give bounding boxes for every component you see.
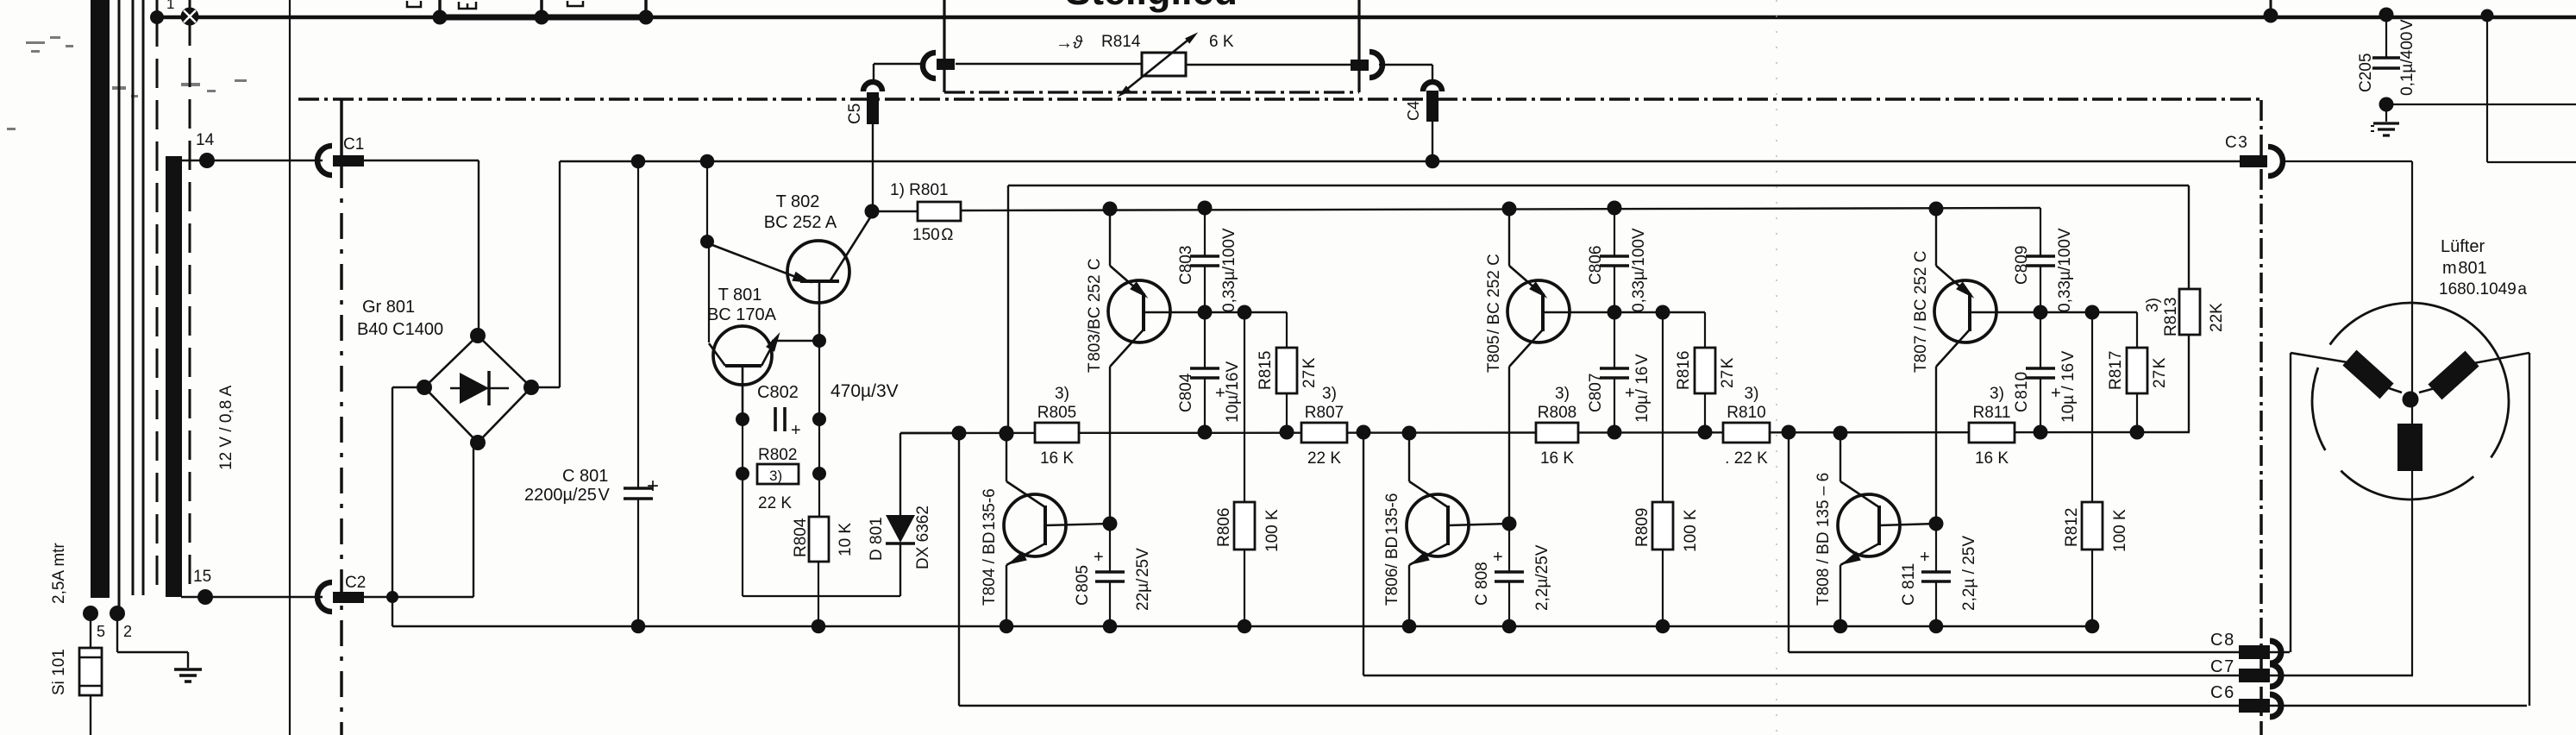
svg-text:0,33µ/100V: 0,33µ/100V	[1220, 228, 1238, 312]
wire C&#8202;805 ground	[1109, 581, 1111, 626]
capacitor C 811	[1935, 524, 1937, 572]
svg-text:0,33µ/100V: 0,33µ/100V	[2056, 228, 2074, 312]
transformer secondary winding bar 14-15	[166, 156, 182, 597]
svg-text:6 K: 6 K	[1209, 33, 1234, 51]
node R804 ground	[812, 619, 826, 634]
node C205 top	[2379, 8, 2394, 22]
fan winding bottom	[2397, 424, 2422, 471]
wire +12V rail	[560, 160, 2240, 162]
node C801 branch	[631, 154, 646, 169]
node bus a	[433, 10, 448, 25]
bridge diamond	[424, 336, 531, 443]
node T804 base	[1103, 517, 1118, 531]
svg-text:22µ/ 25V: 22µ/ 25V	[1134, 548, 1152, 611]
fan center node	[2403, 392, 2419, 408]
diode in bridge	[450, 387, 509, 389]
svg-text:C 801: C 801	[562, 467, 608, 486]
wire base ext	[1205, 311, 1244, 313]
wire C803 to base	[1204, 266, 1206, 312]
wire ground rail	[392, 625, 2093, 628]
resistor R813	[2179, 289, 2200, 335]
cut label a	[407, 1, 421, 7]
wire node2 to ground	[116, 613, 118, 652]
node C 811 ground	[1929, 619, 1944, 634]
resistor R804	[809, 517, 829, 562]
resistor R810	[1723, 423, 1770, 443]
svg-text:R807: R807	[1305, 404, 1344, 422]
wire T803 base	[1144, 311, 1205, 313]
svg-text:10µ / 16 V: 10µ / 16 V	[2059, 350, 2078, 423]
wire R812 riser	[2091, 312, 2093, 502]
svg-text:15: 15	[193, 568, 211, 586]
transistor T807	[1934, 280, 1996, 342]
node T806 base	[1502, 517, 1517, 531]
node loop1	[952, 426, 967, 441]
svg-text:0,1µ/400 V: 0,1µ/400 V	[2398, 19, 2416, 96]
wire stub above bus b	[540, 0, 543, 17]
node T803 emitter rail	[1103, 202, 1118, 217]
wire C 808 ground	[1508, 581, 1510, 626]
wire T801 collector riser	[708, 242, 710, 342]
svg-text:→ϑ: →ϑ	[1056, 34, 1083, 53]
svg-text:m 801: m 801	[2442, 259, 2487, 278]
connector C6	[2239, 699, 2270, 713]
node base/R809	[1656, 305, 1670, 320]
capacitor C807	[1614, 312, 1615, 368]
wire base ext	[2040, 311, 2092, 313]
connector C5	[863, 82, 882, 91]
node C803 top	[1198, 201, 1213, 216]
fan left lead	[2291, 353, 2353, 363]
svg-text:R806: R806	[1215, 508, 1233, 547]
svg-text:100 K: 100 K	[1682, 509, 1700, 552]
wire loop1 down	[958, 433, 960, 706]
wire bridge left to ground rail	[392, 386, 424, 388]
svg-text:C 805: C 805	[1074, 565, 1092, 606]
paper crease	[1776, 0, 1777, 735]
wire R801 to stages	[961, 208, 2040, 210]
svg-text:C 810: C 810	[2013, 372, 2031, 412]
node R802 left	[736, 467, 749, 481]
svg-text:T804 / BD 135-6: T804 / BD 135-6	[981, 488, 999, 606]
wire R815 to rail	[1286, 393, 1288, 432]
svg-text:10µ/16V: 10µ/16V	[1224, 361, 1242, 423]
connector C7	[2239, 669, 2270, 682]
node T802 base	[812, 334, 826, 348]
node C806 top	[1608, 201, 1622, 216]
wire loop3 down	[1788, 432, 1789, 652]
wire 14 to C1	[182, 160, 323, 161]
node base/C803	[1198, 305, 1213, 320]
transformer winding line b	[142, 0, 145, 595]
transformer primary winding bar	[91, 0, 110, 598]
wire C5 to node R801	[872, 120, 874, 211]
connector plug R814 right	[1351, 60, 1369, 71]
node base/C809	[2034, 305, 2048, 320]
transformer core dashed line left	[156, 17, 159, 595]
svg-text:2,5A mtr: 2,5A mtr	[50, 543, 68, 604]
wire R802 left down	[742, 474, 743, 596]
svg-text:Gr 801: Gr 801	[362, 298, 415, 317]
node T805 emitter rail	[1502, 202, 1517, 217]
node R812 ground	[2085, 619, 2100, 634]
resistor R811	[1969, 423, 2015, 443]
svg-text:22 K: 22 K	[758, 494, 792, 512]
node R809 ground	[1656, 619, 1670, 634]
node 15	[197, 589, 213, 605]
capacitor C&#8202;805	[1109, 524, 1111, 572]
svg-text:R815: R815	[1257, 351, 1275, 390]
wire base rail	[900, 432, 2190, 433]
transformer winding line node2	[118, 0, 121, 608]
shield boundary horizontal	[298, 97, 2261, 101]
transistor T806	[1407, 494, 1469, 556]
wire R813 to rail	[2188, 335, 2190, 432]
svg-text:C4: C4	[1405, 101, 1422, 121]
transistor T808	[1838, 494, 1900, 556]
wire feedback right drop to R813	[2188, 185, 2190, 289]
wire C7 rail	[1363, 675, 2413, 676]
connector C1	[317, 146, 332, 175]
wire C3 to fan center	[2280, 160, 2412, 162]
cut label b	[459, 2, 476, 9]
node C&#8202;805 ground	[1103, 619, 1118, 634]
svg-text:10 K: 10 K	[837, 523, 855, 556]
screen junction symbol	[181, 8, 199, 26]
node base/C806	[1608, 305, 1622, 320]
svg-text:150 Ω: 150 Ω	[912, 226, 954, 244]
svg-text:10µ / 16 V: 10µ / 16 V	[1633, 354, 1652, 423]
svg-text:D 801: D 801	[868, 517, 886, 561]
svg-text:C 811: C 811	[1900, 563, 1918, 606]
node C&#8202;810 bottom	[2034, 425, 2048, 440]
transformer core dashed line right	[189, 16, 191, 595]
capacitor C804	[1204, 312, 1206, 368]
node C802 right	[812, 412, 826, 426]
svg-text:T808 / BD 135 – 6: T808 / BD 135 – 6	[1814, 473, 1833, 606]
wire R809 riser	[1662, 312, 1664, 502]
svg-text:3): 3)	[1055, 385, 1069, 403]
wire feedback left drop	[1007, 185, 1009, 434]
svg-text:+: +	[1920, 548, 1930, 567]
svg-text:BC 252 A: BC 252 A	[764, 213, 837, 232]
node 5	[83, 606, 98, 621]
node base/R806	[1238, 305, 1252, 320]
wire stub above bus c	[644, 0, 648, 17]
svg-text:R813: R813	[2162, 298, 2180, 336]
wire R809 to ground	[1662, 550, 1664, 626]
svg-text:+: +	[1094, 548, 1104, 567]
node T807 emitter rail	[1929, 202, 1944, 217]
node C4-rail	[1426, 154, 1440, 169]
capacitor C801	[624, 487, 653, 490]
wire R817 to rail	[2136, 393, 2138, 432]
svg-text:T806/ BD 135-6: T806/ BD 135-6	[1383, 493, 1401, 606]
svg-text:3): 3)	[1745, 385, 1759, 403]
svg-text:C804: C804	[1177, 373, 1195, 412]
wire R806 riser	[1244, 312, 1245, 502]
shield boundary right vertical	[2259, 100, 2263, 735]
transistor T802	[787, 241, 849, 303]
transistor T805	[1507, 280, 1570, 342]
resistor R817	[2127, 348, 2147, 393]
wire C8 rail	[1789, 651, 2290, 653]
svg-text:C802: C802	[757, 383, 799, 402]
svg-text:C1: C1	[343, 135, 364, 154]
node bridge left	[417, 380, 432, 395]
svg-text:R816: R816	[1675, 351, 1693, 390]
wire C 811 ground	[1935, 581, 1937, 626]
Stellglied box right edge	[1357, 0, 1360, 92]
node R806 ground	[1238, 619, 1252, 634]
svg-text:C 8: C 8	[2210, 631, 2234, 650]
wire R806 to ground	[1244, 550, 1245, 626]
wire stub above bus a	[438, 0, 442, 17]
wire C809 to base	[2040, 266, 2041, 312]
svg-text:T805 / BC 252 C: T805 / BC 252 C	[1485, 254, 1503, 373]
resistor R801	[918, 202, 961, 221]
node T806 emitter ground	[1402, 619, 1417, 634]
wire C205 node right	[2386, 104, 2576, 105]
svg-text:Si 101: Si 101	[50, 649, 68, 695]
node T804 collector	[1000, 426, 1014, 441]
wire 27K jog	[2092, 311, 2137, 313]
svg-text:27 K: 27 K	[1719, 357, 1737, 388]
node R802 right	[812, 467, 826, 481]
wire R804 to ground	[818, 562, 819, 626]
wire top bus	[152, 16, 2576, 20]
svg-text:2,2µ / 25V: 2,2µ / 25V	[1960, 536, 1978, 611]
node C 808 ground	[1502, 619, 1517, 634]
node T801/T802 junction	[700, 235, 714, 248]
node C5/R801	[865, 204, 880, 219]
ground symbol C205	[2385, 104, 2387, 122]
svg-text:470µ/3V: 470µ/3V	[830, 381, 899, 401]
ground symbol (transformer)	[174, 668, 202, 671]
transistor T801	[713, 326, 772, 385]
svg-text:16 K: 16 K	[1540, 449, 1574, 468]
svg-text:2,2µ/25V: 2,2µ/25V	[1533, 544, 1551, 611]
scan noise	[7, 36, 247, 130]
wire R814 to right plug	[1186, 64, 1351, 66]
svg-text:R802: R802	[758, 446, 797, 464]
potentiometer R814	[1142, 53, 1186, 76]
connector C3	[2240, 155, 2267, 167]
node T808 collector	[1833, 426, 1848, 441]
node C804 bottom	[1198, 425, 1213, 440]
svg-text:C 3: C 3	[2225, 134, 2247, 152]
capacitor C803	[1204, 208, 1206, 256]
wire C6 rail	[959, 705, 2527, 707]
wire stub above	[2270, 0, 2272, 16]
fan right lead	[2469, 353, 2529, 364]
svg-text:R817: R817	[2107, 351, 2125, 390]
wire C801 to ground	[637, 499, 639, 626]
resistor R805	[1035, 423, 1079, 443]
svg-text:R811: R811	[1972, 404, 2010, 422]
node C807 bottom	[1608, 425, 1622, 440]
svg-text:16 K: 16 K	[1040, 449, 1074, 468]
node bus-left	[150, 10, 164, 24]
wire stub above screen junction	[189, 0, 191, 10]
wire T805 base	[1543, 311, 1614, 313]
svg-text:3): 3)	[2144, 298, 2162, 312]
node C801 ground	[631, 619, 646, 634]
svg-text:R810: R810	[1727, 404, 1765, 422]
R814 adjust arrow	[1126, 40, 1188, 90]
svg-text:Lüfter: Lüfter	[2441, 237, 2485, 256]
svg-text:3): 3)	[1555, 385, 1570, 403]
node bridge bottom	[470, 435, 486, 450]
wire 27K jog	[1663, 311, 1705, 313]
svg-text:C 7: C 7	[2210, 657, 2234, 676]
svg-text:R805: R805	[1037, 404, 1076, 422]
svg-text:16 K: 16 K	[1975, 449, 2009, 468]
wire feedback rail	[1008, 185, 2189, 186]
node T804 emitter ground	[1000, 619, 1014, 634]
wire rail to C801	[637, 161, 639, 488]
svg-text:100 K: 100 K	[1263, 509, 1282, 552]
node bus c	[639, 10, 654, 25]
svg-text:27 K: 27 K	[1301, 357, 1319, 388]
wire base ext	[1614, 311, 1663, 313]
svg-text:C807: C807	[1587, 374, 1605, 412]
resistor R806	[1234, 502, 1255, 550]
wire T807 base	[1970, 311, 2040, 313]
wire C&#8202;810 to rail	[2040, 378, 2041, 433]
node T808 base	[1929, 517, 1944, 531]
wire node to R801	[872, 210, 918, 212]
svg-text:T 803/BC 252 C: T 803/BC 252 C	[1086, 258, 1104, 373]
svg-text:2200µ/25 V: 2200µ/25 V	[524, 486, 610, 505]
node 14	[199, 153, 215, 168]
node C802 left	[736, 412, 749, 426]
node R816 bottom	[1698, 425, 1713, 440]
svg-text:T807 / BC 252 C: T807 / BC 252 C	[1912, 250, 1930, 373]
wire rail down to T-group	[706, 161, 708, 242]
capacitor C802	[774, 407, 777, 431]
svg-text:22K: 22K	[2208, 303, 2226, 332]
svg-text:5: 5	[97, 623, 105, 640]
capacitor C 808	[1508, 524, 1510, 572]
svg-text:C803: C803	[1177, 246, 1195, 285]
svg-text:C 808: C 808	[1473, 562, 1491, 606]
resistor R809	[1652, 502, 1673, 550]
node R817 bottom	[2130, 425, 2145, 440]
svg-text:+: +	[1493, 548, 1503, 567]
wire C5 to R814 plug	[873, 64, 874, 83]
svg-text:1680.1049 a: 1680.1049 a	[2439, 280, 2527, 298]
shield boundary left vertical	[340, 99, 343, 162]
wire 27K jog	[1244, 311, 1287, 313]
resistor R808	[1536, 423, 1578, 443]
connector C4	[1423, 82, 1442, 91]
wire bus right drop	[2486, 16, 2488, 162]
wire C806 to base	[1614, 266, 1615, 312]
svg-text:1: 1	[166, 0, 174, 12]
svg-text:14: 14	[196, 131, 215, 149]
node R810 right / loop3	[1782, 425, 1796, 440]
svg-text:C5: C5	[846, 104, 864, 124]
node bridge top	[470, 328, 486, 343]
svg-text:B40 C1400: B40 C1400	[357, 320, 443, 339]
wire R804 top	[818, 474, 820, 517]
svg-text:. 22 K: . 22 K	[1725, 449, 1768, 468]
svg-text:C2: C2	[345, 574, 366, 592]
svg-text:C 6: C 6	[2210, 683, 2234, 702]
node bus C205 stub	[2264, 9, 2278, 23]
fan motor circle	[2341, 471, 2473, 499]
wire C804 to rail	[1204, 378, 1206, 433]
transformer winding line a	[132, 0, 135, 595]
node T806 collector	[1402, 426, 1417, 441]
node bus right drop	[2481, 9, 2494, 22]
node 2	[110, 606, 125, 621]
svg-text:DX 6362: DX 6362	[914, 506, 932, 569]
wire C4 to rail	[1432, 122, 1433, 161]
svg-text:3): 3)	[769, 468, 782, 484]
node R815 bottom	[1280, 425, 1294, 440]
node C205 bottom	[2379, 97, 2394, 112]
resistor R812	[2082, 502, 2103, 550]
resistor R807	[1301, 423, 1347, 443]
wire vertical chassis line	[289, 0, 291, 735]
svg-text:22 K: 22 K	[1307, 449, 1341, 468]
wire 15 to C2	[181, 596, 323, 598]
transistor T804	[1004, 494, 1066, 556]
capacitor C205	[2385, 15, 2387, 58]
svg-text:T 801: T 801	[718, 286, 762, 305]
node C2-ground join	[386, 591, 398, 603]
node base/R812	[2085, 305, 2100, 320]
connector C8	[2239, 645, 2270, 659]
node T808 emitter ground	[1833, 619, 1848, 634]
connector plug R814 left	[923, 53, 936, 79]
svg-text:T 802: T 802	[776, 192, 820, 211]
wire bridge right up	[531, 386, 560, 388]
wire C807 to rail	[1614, 378, 1615, 433]
node R805 left	[1000, 427, 1014, 442]
svg-text:Stellglied: Stellglied	[1065, 0, 1238, 13]
wire loop2 down	[1363, 432, 1364, 675]
wire D801 to base rail	[900, 432, 959, 434]
cut label c	[567, 1, 583, 6]
svg-text:1) R801: 1) R801	[890, 181, 949, 199]
fuse Si101	[90, 613, 91, 648]
wire C2 to bridge bottom	[364, 596, 473, 598]
resistor R815	[1276, 348, 1297, 393]
connector C2	[317, 582, 332, 612]
svg-text:2: 2	[123, 623, 132, 640]
Stellglied box left edge	[943, 0, 945, 92]
node T801 branch	[700, 154, 715, 169]
transistor T803	[1108, 280, 1170, 342]
wire R812 to ground	[2091, 550, 2093, 626]
wire C802R to R802	[818, 419, 820, 474]
wire R816 to rail	[1704, 393, 1706, 432]
node R807 right / loop2	[1357, 425, 1371, 440]
diode D801	[899, 543, 901, 596]
svg-text:R814: R814	[1101, 33, 1141, 51]
svg-text:C205: C205	[2357, 53, 2375, 92]
fan winding upper-left	[2342, 350, 2393, 399]
svg-text:0,33µ/100V: 0,33µ/100V	[1630, 228, 1648, 312]
wire plug to C4	[1379, 64, 1432, 66]
resistor R816	[1695, 348, 1715, 393]
wire C802L to R802	[742, 419, 743, 474]
svg-text:R808: R808	[1538, 404, 1576, 422]
node bridge right	[523, 380, 539, 395]
